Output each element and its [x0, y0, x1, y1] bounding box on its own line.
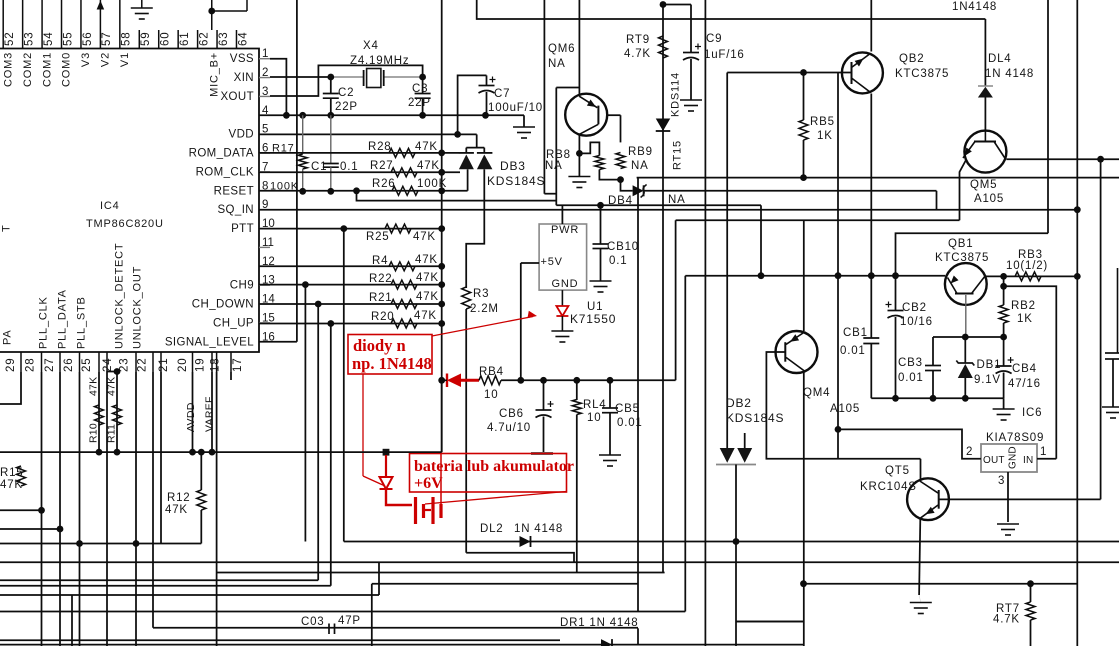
- svg-text:RT9: RT9: [626, 34, 650, 46]
- svg-text:27: 27: [44, 358, 56, 372]
- svg-text:RB2: RB2: [1011, 300, 1036, 312]
- svg-text:CB10: CB10: [607, 241, 639, 253]
- svg-text:47K: 47K: [413, 231, 436, 243]
- svg-text:62: 62: [198, 32, 210, 46]
- svg-text:1K: 1K: [1017, 313, 1033, 325]
- svg-text:DB2: DB2: [726, 396, 752, 410]
- svg-text:100uF/10: 100uF/10: [488, 102, 543, 114]
- svg-text:63: 63: [218, 32, 230, 46]
- svg-text:CB1: CB1: [843, 327, 868, 339]
- svg-text:C1: C1: [311, 161, 327, 173]
- svg-text:28: 28: [24, 358, 36, 372]
- svg-text:NA: NA: [668, 194, 686, 206]
- svg-text:9.1V: 9.1V: [974, 374, 1001, 386]
- svg-text:CH_DOWN: CH_DOWN: [192, 299, 254, 311]
- svg-text:R20: R20: [371, 311, 395, 323]
- svg-text:64: 64: [237, 32, 249, 46]
- svg-text:C7: C7: [494, 88, 510, 100]
- svg-text:CB5: CB5: [615, 403, 640, 415]
- svg-text:KDS114: KDS114: [670, 72, 682, 117]
- svg-text:C03: C03: [301, 616, 325, 628]
- svg-text:10/16: 10/16: [900, 316, 933, 328]
- svg-text:47K: 47K: [415, 141, 438, 153]
- svg-text:np. 1N4148: np. 1N4148: [352, 354, 432, 373]
- svg-text:0.1: 0.1: [609, 255, 627, 267]
- svg-text:56: 56: [82, 32, 94, 46]
- svg-text:QB2: QB2: [899, 53, 924, 65]
- svg-text:47K: 47K: [415, 254, 438, 266]
- svg-text:61: 61: [179, 32, 191, 46]
- svg-text:R27: R27: [370, 160, 394, 172]
- svg-text:IC6: IC6: [1022, 407, 1042, 419]
- svg-text:DB4: DB4: [608, 195, 633, 207]
- svg-text:QB1: QB1: [948, 238, 973, 250]
- svg-text:NA: NA: [548, 58, 566, 70]
- svg-text:0.1: 0.1: [340, 161, 358, 173]
- svg-text:XIN: XIN: [234, 72, 254, 84]
- svg-text:0.01: 0.01: [840, 345, 866, 357]
- svg-text:3: 3: [998, 475, 1005, 487]
- svg-text:PLL_CLK: PLL_CLK: [38, 296, 50, 349]
- svg-text:4.7K: 4.7K: [624, 48, 651, 60]
- svg-text:DL2: DL2: [480, 523, 504, 535]
- svg-text:22P: 22P: [408, 97, 431, 109]
- svg-text:52: 52: [4, 32, 16, 46]
- svg-text:COM0: COM0: [61, 52, 73, 87]
- svg-text:47/16: 47/16: [1008, 378, 1041, 390]
- svg-text:0.01: 0.01: [617, 417, 643, 429]
- svg-text:bateria lub akumulator: bateria lub akumulator: [414, 458, 574, 475]
- svg-text:1K: 1K: [817, 130, 833, 142]
- svg-text:COM2: COM2: [22, 52, 34, 87]
- svg-text:21: 21: [158, 358, 170, 372]
- svg-text:MIC_B+: MIC_B+: [209, 52, 221, 97]
- svg-text:CH_UP: CH_UP: [213, 317, 254, 329]
- svg-text:NA: NA: [545, 160, 563, 172]
- svg-text:60: 60: [160, 32, 172, 46]
- svg-text:CB6: CB6: [499, 408, 524, 420]
- svg-text:V3: V3: [80, 52, 92, 67]
- svg-text:1N 4148: 1N 4148: [514, 523, 563, 535]
- svg-text:SQ_IN: SQ_IN: [217, 204, 254, 216]
- svg-text:PLL_DATA: PLL_DATA: [57, 289, 69, 349]
- svg-text:A105: A105: [830, 403, 860, 415]
- svg-text:59: 59: [140, 32, 152, 46]
- svg-text:KDS184S: KDS184S: [726, 411, 784, 425]
- svg-text:1N 4148: 1N 4148: [985, 68, 1034, 80]
- svg-text:+6V: +6V: [414, 475, 443, 492]
- svg-text:R12: R12: [167, 492, 191, 504]
- svg-text:1uF/16: 1uF/16: [704, 49, 745, 61]
- svg-text:ROM_CLK: ROM_CLK: [196, 166, 254, 178]
- svg-text:AVDD: AVDD: [185, 402, 197, 432]
- svg-text:ROM_DATA: ROM_DATA: [189, 148, 254, 160]
- svg-text:C3: C3: [412, 83, 428, 95]
- svg-text:19: 19: [194, 358, 206, 372]
- svg-text:CB3: CB3: [898, 357, 923, 369]
- svg-text:22: 22: [136, 358, 148, 372]
- svg-text:10: 10: [484, 389, 498, 401]
- svg-text:10: 10: [587, 412, 601, 424]
- svg-text:1N4148: 1N4148: [952, 1, 997, 13]
- svg-text:DB1: DB1: [977, 359, 1002, 371]
- svg-text:Z4.19MHz: Z4.19MHz: [350, 55, 409, 67]
- svg-text:R28: R28: [368, 141, 392, 153]
- svg-text:4.7u/10: 4.7u/10: [487, 422, 531, 434]
- svg-text:CB2: CB2: [902, 302, 927, 314]
- svg-text:15: 15: [262, 312, 275, 324]
- svg-text:2: 2: [262, 67, 268, 79]
- svg-text:KRC104S: KRC104S: [860, 481, 917, 493]
- svg-text:17: 17: [232, 358, 244, 372]
- svg-text:53: 53: [23, 32, 35, 46]
- svg-text:47K: 47K: [88, 377, 100, 396]
- svg-text:1: 1: [1040, 446, 1047, 458]
- svg-text:+5V: +5V: [541, 256, 563, 268]
- svg-text:47K: 47K: [414, 310, 437, 322]
- svg-text:CB4: CB4: [1012, 363, 1037, 375]
- svg-text:R10: R10: [88, 423, 100, 443]
- svg-text:47K: 47K: [417, 160, 440, 172]
- svg-text:QM5: QM5: [970, 179, 997, 191]
- svg-text:58: 58: [121, 32, 133, 46]
- svg-text:XOUT: XOUT: [220, 91, 254, 103]
- svg-text:R21: R21: [369, 292, 393, 304]
- svg-text:29: 29: [5, 358, 17, 372]
- svg-text:UNLOCK_DETECT: UNLOCK_DETECT: [114, 243, 126, 349]
- svg-text:KDS184S: KDS184S: [487, 174, 545, 188]
- svg-text:COM1: COM1: [41, 52, 53, 87]
- svg-text:UNLOCK_OUT: UNLOCK_OUT: [132, 266, 144, 349]
- svg-text:NA: NA: [631, 160, 649, 172]
- svg-text:22P: 22P: [335, 101, 358, 113]
- svg-text:24: 24: [102, 358, 114, 372]
- svg-text:RB4: RB4: [479, 366, 504, 378]
- svg-text:2.2M: 2.2M: [470, 303, 499, 315]
- svg-text:R26: R26: [372, 178, 396, 190]
- svg-text:C2: C2: [338, 87, 354, 99]
- svg-text:KTC3875: KTC3875: [935, 252, 989, 264]
- svg-text:KTC3875: KTC3875: [895, 68, 949, 80]
- svg-text:GND: GND: [552, 278, 579, 290]
- svg-text:PA: PA: [2, 330, 14, 345]
- svg-text:47K: 47K: [0, 479, 23, 491]
- svg-text:VSS: VSS: [230, 53, 254, 65]
- svg-text:diody n: diody n: [353, 336, 406, 355]
- svg-text:CH9: CH9: [230, 280, 254, 292]
- svg-text:TMP86C820U: TMP86C820U: [86, 218, 164, 230]
- svg-text:QM4: QM4: [803, 387, 830, 399]
- svg-text:COM3: COM3: [2, 52, 14, 87]
- svg-text:DL4: DL4: [988, 53, 1012, 65]
- svg-text:DR1 1N 4148: DR1 1N 4148: [560, 617, 638, 629]
- svg-text:54: 54: [43, 32, 55, 46]
- svg-text:SIGNAL_LEVEL: SIGNAL_LEVEL: [165, 336, 254, 348]
- svg-text:10(1/2): 10(1/2): [1006, 260, 1048, 272]
- svg-text:26: 26: [63, 358, 75, 372]
- svg-text:OUT: OUT: [983, 455, 1005, 466]
- svg-text:23: 23: [119, 358, 131, 372]
- svg-text:IN: IN: [1023, 455, 1033, 466]
- svg-text:47K: 47K: [165, 504, 188, 516]
- svg-text:20: 20: [177, 358, 189, 372]
- svg-text:V2: V2: [100, 52, 112, 67]
- svg-text:R25: R25: [366, 231, 390, 243]
- svg-text:0.01: 0.01: [898, 372, 924, 384]
- svg-text:11: 11: [262, 237, 274, 249]
- svg-text:QT5: QT5: [885, 465, 910, 477]
- svg-text:RB5: RB5: [810, 116, 835, 128]
- svg-text:V1: V1: [119, 52, 131, 67]
- svg-text:4.7K: 4.7K: [993, 614, 1020, 626]
- svg-text:55: 55: [62, 32, 74, 46]
- svg-text:RESET: RESET: [214, 185, 254, 197]
- svg-text:GND: GND: [1008, 446, 1019, 469]
- svg-text:47K: 47K: [416, 272, 439, 284]
- svg-text:VAREF: VAREF: [204, 396, 216, 432]
- svg-text:18: 18: [209, 358, 221, 372]
- svg-text:PWR: PWR: [551, 224, 579, 236]
- svg-text:R4: R4: [372, 255, 388, 267]
- svg-text:3: 3: [262, 86, 268, 98]
- svg-text:R22: R22: [369, 273, 393, 285]
- svg-text:2: 2: [966, 446, 973, 458]
- svg-text:IC4: IC4: [100, 200, 120, 212]
- svg-text:QM6: QM6: [548, 43, 575, 55]
- svg-text:PLL_STB: PLL_STB: [76, 296, 88, 349]
- svg-text:57: 57: [101, 32, 113, 46]
- svg-text:C9: C9: [706, 33, 722, 45]
- svg-text:RB9: RB9: [628, 146, 653, 158]
- svg-text:RL4: RL4: [583, 399, 607, 411]
- svg-text:DB3: DB3: [500, 159, 526, 173]
- svg-text:1: 1: [262, 48, 268, 60]
- svg-text:47K: 47K: [416, 291, 439, 303]
- svg-text:A105: A105: [974, 193, 1004, 205]
- svg-text:R3: R3: [473, 288, 489, 300]
- svg-text:47P: 47P: [338, 615, 361, 627]
- svg-text:PTT: PTT: [231, 223, 254, 235]
- svg-text:KIA78S09: KIA78S09: [986, 432, 1044, 444]
- svg-text:25: 25: [81, 358, 93, 372]
- svg-text:VDD: VDD: [229, 129, 254, 141]
- svg-text:X4: X4: [363, 40, 379, 52]
- svg-text:K71550: K71550: [570, 312, 616, 326]
- svg-text:RT15: RT15: [672, 140, 684, 170]
- svg-text:T: T: [1, 224, 13, 232]
